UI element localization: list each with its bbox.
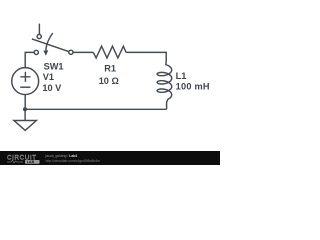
wire switch left to source xyxy=(25,52,34,67)
svg-text:10 V: 10 V xyxy=(42,83,62,93)
wire ground stub xyxy=(24,109,26,120)
svg-text:jacob_golding / Lab4: jacob_golding / Lab4 xyxy=(45,154,78,158)
resistor R1 xyxy=(93,46,126,58)
voltage source V1 xyxy=(12,68,39,95)
svg-text:100 mH: 100 mH xyxy=(176,81,210,91)
footer bar xyxy=(0,151,220,165)
svg-text:R1: R1 xyxy=(104,64,116,74)
wire switch right to resistor xyxy=(73,51,93,53)
footer logo LAB box xyxy=(25,160,40,164)
svg-text:L1: L1 xyxy=(176,71,187,81)
wire bottom rail xyxy=(25,108,167,110)
footer logo waveform xyxy=(7,160,23,163)
svg-text:LAB: LAB xyxy=(27,160,35,164)
wire source bottom xyxy=(24,95,26,110)
switch SW1 xyxy=(32,33,73,56)
labels xyxy=(42,61,210,93)
svg-text:10 Ω: 10 Ω xyxy=(99,76,119,86)
svg-text:SW1: SW1 xyxy=(44,61,64,71)
wire switch top stub xyxy=(38,24,40,35)
svg-text:http://circuitlab.com/c4gu45f5: http://circuitlab.com/c4gu45f5o6b4m xyxy=(46,159,101,163)
inductor L1 coil xyxy=(157,62,172,109)
svg-text:V1: V1 xyxy=(43,72,54,82)
ground xyxy=(14,121,37,131)
footer logo CIRCUIT xyxy=(7,154,100,164)
wire resistor to top-right corner xyxy=(126,52,166,62)
node junction xyxy=(23,107,27,111)
